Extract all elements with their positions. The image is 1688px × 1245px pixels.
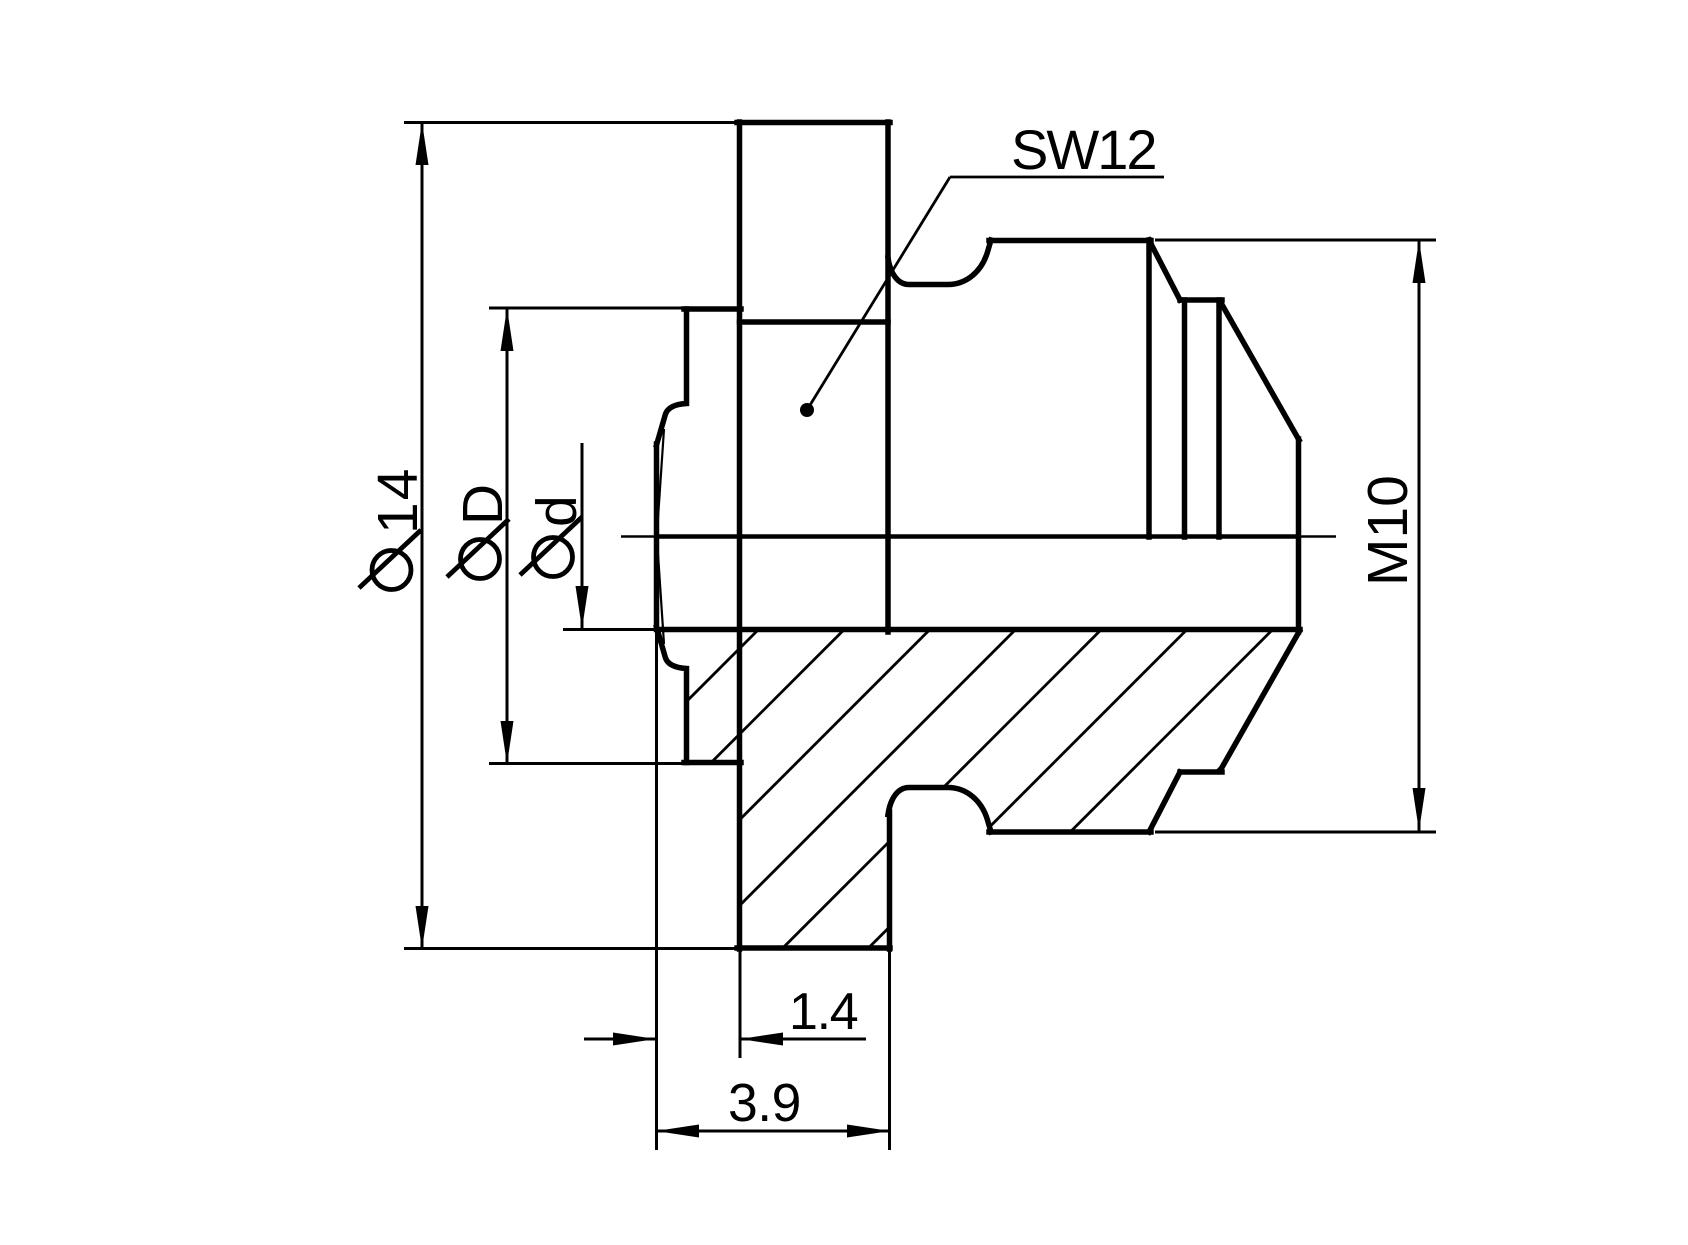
diameter symbols for O14, OD, Od: [359, 517, 582, 590]
M10 arrows: [1413, 240, 1426, 283]
hex flat edge (top view): [740, 319, 889, 325]
hex bottom: [737, 945, 890, 951]
collar bottom horizontal: [1180, 769, 1222, 775]
dim line Od: [581, 443, 584, 629]
runout chamfer top: [1149, 240, 1180, 300]
3.9 arrows: [656, 1125, 699, 1138]
arrowheads: [416, 122, 1426, 1138]
hex right edge (down to bore line): [885, 122, 891, 632]
Od arrow: [576, 586, 589, 629]
end chamfer top: [1221, 302, 1300, 440]
hex right lower edge: [887, 812, 893, 949]
left tip bottom mirror: [657, 627, 687, 763]
axis line thick middle: [657, 534, 1301, 539]
left face (spans across axis): [654, 444, 660, 628]
svg-text:3.9: 3.9: [728, 1074, 801, 1133]
step top horizontal: [684, 306, 741, 312]
1.4 arrows: [613, 1033, 656, 1046]
dimension lines: [422, 122, 1419, 1131]
svg-text:D: D: [451, 484, 515, 525]
bore bottom edge: [657, 627, 1301, 633]
O14 arrows: [416, 122, 429, 165]
svg-text:d: d: [525, 495, 589, 527]
dim line O14: [421, 122, 424, 949]
dim line 1.4 left tail: [584, 1038, 656, 1041]
hex left edge full height: [737, 122, 743, 949]
left tip top: chamfer + fillet + vertical: [657, 309, 687, 445]
step bottom horizontal: [684, 760, 741, 766]
thread bottom: [989, 829, 1151, 835]
hex top: [737, 120, 890, 126]
collar top horizontal: [1180, 297, 1222, 303]
thread right edge: [1146, 240, 1152, 537]
right face: [1296, 439, 1302, 632]
dim line M10: [1418, 240, 1421, 831]
OD arrows: [501, 308, 514, 351]
svg-text:SW12: SW12: [1011, 118, 1156, 181]
collar right edge: [1216, 300, 1222, 537]
undercut groove top: [888, 240, 991, 285]
extension lines, thin: [404, 123, 1436, 1151]
end chamfer bottom (section): [1221, 631, 1300, 770]
part outline: thick: [657, 122, 1301, 949]
thread top: [989, 238, 1151, 244]
axis line thin stubs: [621, 535, 657, 538]
svg-text:1.4: 1.4: [789, 983, 858, 1041]
svg-text:M10: M10: [1356, 475, 1420, 586]
dim line OD: [506, 308, 509, 764]
leader dot on hex face: [800, 403, 814, 417]
hatching (section lines): [386, 330, 1658, 1002]
left tip inner cone edges, thin: [657, 429, 664, 644]
svg-text:14: 14: [366, 467, 430, 534]
dim line 3.9: [656, 1130, 890, 1133]
collar left edge: [1182, 300, 1188, 537]
leader SW12: [807, 177, 1164, 410]
dim line 1.4 right part: [740, 1038, 866, 1041]
runout chamfer bottom: [1149, 772, 1180, 832]
undercut groove bottom: [888, 788, 991, 833]
